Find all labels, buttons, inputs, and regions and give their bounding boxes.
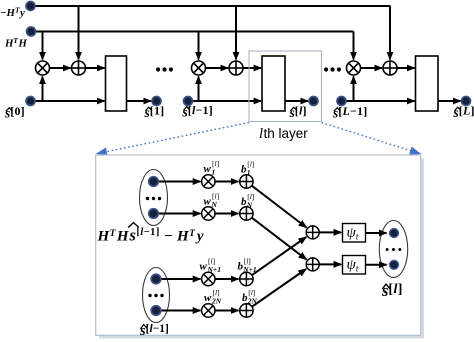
svg-text:w: w bbox=[204, 292, 212, 304]
svg-text:N+1: N+1 bbox=[207, 265, 221, 274]
svg-text:s[l]: s[l] bbox=[381, 281, 403, 300]
svg-text:w: w bbox=[204, 163, 212, 175]
svg-text:w: w bbox=[204, 195, 212, 207]
svg-text:1: 1 bbox=[212, 168, 216, 177]
svg-text:[l]: [l] bbox=[212, 159, 219, 168]
svg-text:[l]: [l] bbox=[212, 192, 219, 201]
svg-text:[l]: [l] bbox=[247, 192, 254, 201]
svg-text:[l]: [l] bbox=[208, 257, 215, 266]
svg-text:[l]: [l] bbox=[213, 288, 220, 297]
svg-text:th layer: th layer bbox=[264, 126, 309, 141]
svg-text:−HTy: −HTy bbox=[0, 6, 25, 19]
svg-text:l: l bbox=[259, 126, 263, 142]
svg-text:N: N bbox=[211, 200, 218, 209]
svg-text:[l]: [l] bbox=[248, 288, 255, 297]
svg-text:N: N bbox=[246, 200, 253, 209]
svg-text:w: w bbox=[200, 260, 208, 272]
svg-text:2N: 2N bbox=[247, 296, 258, 305]
svg-text:N+1: N+1 bbox=[242, 265, 256, 274]
svg-text:1: 1 bbox=[247, 168, 251, 177]
svg-text:2N: 2N bbox=[211, 296, 222, 305]
svg-text:[l]: [l] bbox=[244, 257, 251, 266]
svg-text:[l]: [l] bbox=[247, 160, 254, 169]
